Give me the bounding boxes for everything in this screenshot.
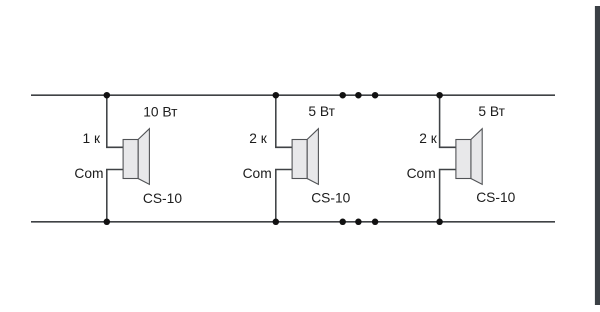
node: LS3 junction on bottom bus [436, 219, 443, 226]
node: LS2 junction on bottom bus [273, 219, 280, 226]
svg-text:Com: Com [243, 166, 272, 181]
node: LS2 junction on top bus [273, 92, 280, 99]
wire: LS2 Com terminal to bottom bus [276, 170, 292, 222]
wire: top bus (+) [31, 94, 555, 96]
svg-text:5 Вт: 5 Вт [308, 104, 335, 119]
svg-text:2 к: 2 к [419, 131, 438, 146]
speaker LS2 (CS-10) [292, 129, 318, 185]
node: expansion dots on bottom bus [339, 219, 378, 226]
svg-text:10 Вт: 10 Вт [143, 105, 178, 120]
svg-text:CS-10: CS-10 [311, 191, 350, 206]
wire: top bus to LS2 input terminal [276, 95, 292, 147]
svg-text:5 Вт: 5 Вт [478, 104, 505, 119]
speaker LS1 (CS-10) [123, 129, 149, 185]
svg-text:CS-10: CS-10 [476, 190, 515, 205]
wire: top bus to LS3 input terminal [440, 95, 456, 147]
speaker LS3 (CS-10) [456, 129, 482, 185]
svg-text:1 к: 1 к [83, 131, 102, 146]
node: LS3 junction on top bus [436, 92, 443, 99]
svg-text:CS-10: CS-10 [143, 191, 182, 206]
node: LS1 junction on bottom bus [104, 219, 111, 226]
wire: bottom bus (-) [31, 221, 555, 223]
node: LS1 junction on top bus [104, 92, 111, 99]
svg-text:Com: Com [407, 166, 436, 181]
svg-text:2 к: 2 к [249, 131, 268, 146]
svg-text:Com: Com [74, 166, 103, 181]
wire: LS1 Com terminal to bottom bus [107, 170, 123, 222]
wire: top bus to LS1 input terminal [107, 95, 123, 147]
wire: LS3 Com terminal to bottom bus [440, 170, 456, 222]
node: expansion dots on top bus [339, 92, 378, 99]
